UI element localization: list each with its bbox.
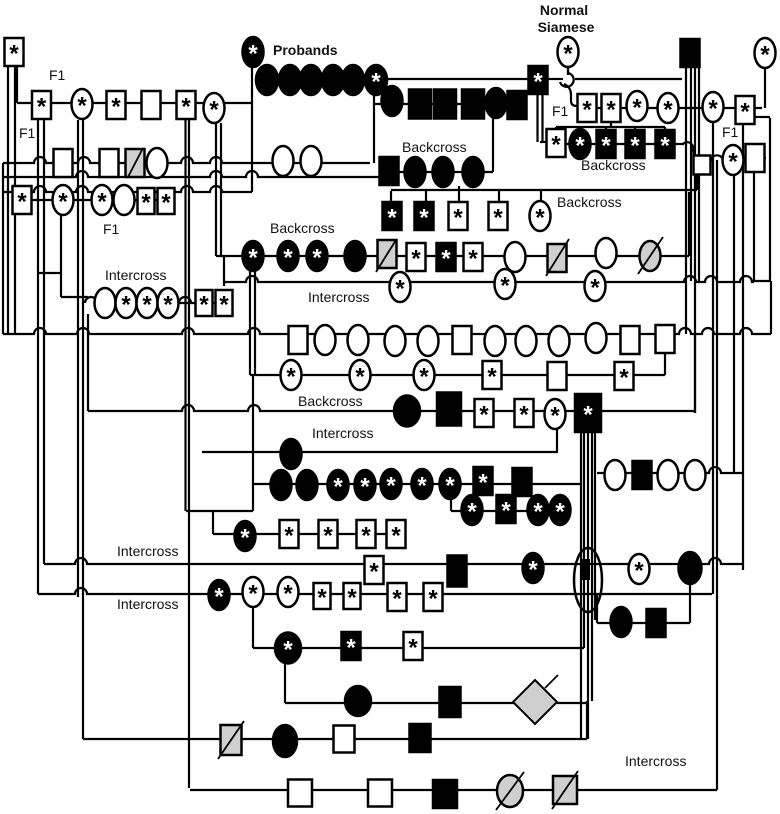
affected male row19 c: [433, 780, 457, 808]
female row3 c: [301, 146, 322, 176]
male* row15 g: [424, 583, 443, 613]
svg-text:*: *: [519, 402, 529, 429]
wire hook over bus right of backcross row: [683, 142, 694, 156]
affected male row9 b: [437, 393, 461, 426]
svg-text:Intercross: Intercross: [105, 267, 166, 283]
svg-text:*: *: [214, 584, 224, 611]
female row3 a: [147, 148, 168, 178]
svg-text:*: *: [219, 292, 229, 319]
male* row8 d: [483, 361, 502, 391]
svg-text:*: *: [478, 470, 488, 497]
wire bus big square a: [580, 432, 582, 739]
female row7 g: [485, 326, 506, 356]
svg-text:*: *: [9, 41, 19, 68]
wire drop F1 to sibs: [610, 119, 612, 127]
svg-text:*: *: [583, 402, 593, 429]
wire proband descent: [251, 67, 253, 192]
svg-text:*: *: [493, 205, 503, 232]
wire row3-right sibs line: [556, 126, 665, 128]
svg-text:*: *: [240, 525, 250, 552]
svg-text:*: *: [286, 364, 296, 391]
svg-text:*: *: [283, 245, 293, 272]
svg-text:*: *: [392, 586, 402, 613]
svg-text:F1: F1: [103, 221, 120, 237]
svg-text:*: *: [419, 205, 429, 232]
svg-text:Backcross: Backcross: [581, 157, 646, 173]
wire drop ellipse*555 to row10: [556, 429, 558, 452]
svg-text:F1: F1: [19, 125, 36, 141]
wire long left bus vertical: [188, 119, 190, 788]
affected female* row16 a: [275, 633, 301, 664]
svg-text:Backcross: Backcross: [402, 139, 467, 155]
svg-text:*: *: [248, 581, 258, 608]
wire drop row11 to row12: [450, 497, 452, 511]
wire row3-left mating line: [3, 157, 370, 163]
affected male* backcross child a: [383, 202, 402, 232]
wire vertical from ellipse*733: [733, 174, 735, 473]
affected female row10: [281, 439, 302, 469]
male* row4 c: [158, 188, 175, 217]
female* row15 c: [278, 577, 299, 608]
affected female* row5 b: [278, 241, 299, 272]
svg-text:Intercross: Intercross: [312, 425, 373, 441]
affected female* row11 g: [440, 469, 461, 500]
wire left bus vertical b: [184, 119, 186, 511]
female* row6 d: [158, 288, 179, 319]
svg-text:Intercross: Intercross: [117, 543, 178, 559]
wire row5 mating line: [216, 255, 689, 257]
wire row2-right F1 mating line: [580, 107, 762, 109]
female row11r a: [605, 460, 626, 490]
wire bus big square e: [594, 432, 596, 620]
affected male row18 b: [410, 724, 431, 752]
svg-text:Normal: Normal: [540, 2, 588, 18]
wire row6 intercross mating line: [95, 302, 224, 304]
wire drop row5 to row5b: [223, 256, 225, 286]
wire link to square556: [540, 141, 548, 143]
affected female* row12 d: [550, 495, 571, 526]
affected male* row16 b: [342, 632, 361, 662]
wire vertical from square* row2-left b: [43, 119, 45, 564]
wire bus dark square 690 a: [685, 68, 687, 334]
slash on grey male row5 i: [546, 239, 569, 276]
wire sib drop b: [579, 127, 581, 130]
female* row5b b: [495, 269, 516, 300]
normal siamese female*: [558, 37, 579, 68]
wire drop ellipse253 row15 to row16: [252, 607, 254, 648]
svg-text:*: *: [386, 473, 396, 500]
wire intercross connector b: [61, 296, 88, 298]
affected male* row11 h: [474, 467, 493, 497]
female* row8 b: [350, 360, 371, 391]
wire riser row5 right end: [688, 192, 690, 256]
wire sib drop 459: [458, 186, 460, 203]
wire row4-left mating line: [14, 199, 174, 201]
male* backcross child d: [489, 202, 508, 232]
affected female* row15 a: [209, 580, 230, 611]
svg-text:*: *: [428, 586, 438, 613]
female* row5b a: [390, 272, 411, 303]
wire drop square538 b: [541, 94, 543, 142]
wire drop from proband-row ellipse* to row3: [373, 95, 375, 163]
wire row1 line right of siamese: [575, 78, 682, 80]
svg-text:*: *: [283, 581, 293, 608]
deceased female row5 k (grey): [640, 241, 661, 271]
svg-text:*: *: [17, 189, 27, 216]
wire bus dark square 690 c: [694, 68, 696, 413]
affected female* row12 a: [462, 495, 483, 526]
female* row2 b: [204, 93, 225, 124]
svg-text:*: *: [740, 99, 750, 126]
wire row2-left mating line: [17, 102, 252, 104]
affected female row9 a: [394, 396, 420, 427]
male* row6 e: [196, 290, 213, 319]
wire right edge vertical: [770, 281, 772, 334]
svg-text:*: *: [323, 523, 333, 550]
svg-text:Probands: Probands: [273, 42, 338, 58]
proband row affected female 3: [300, 65, 322, 95]
svg-text:Intercross: Intercross: [308, 289, 369, 305]
svg-text:*: *: [391, 523, 401, 550]
slash on grey male row3: [128, 148, 143, 177]
svg-text:*: *: [347, 585, 357, 612]
svg-text:*: *: [663, 97, 673, 124]
male row3 b: [100, 149, 119, 177]
wire drop square755 to row5b: [753, 172, 755, 281]
wire riser from dark ellipse (493,103): [492, 118, 494, 172]
wire row11-right mating line: [597, 467, 743, 473]
svg-text:*: *: [500, 273, 510, 300]
svg-text:*: *: [601, 133, 611, 160]
node large oval across bus: [574, 548, 602, 612]
svg-text:*: *: [346, 635, 356, 662]
female* (733,160): [723, 145, 744, 176]
wire sib drop 541: [540, 191, 542, 203]
wire line y192: [4, 186, 252, 192]
female row7 i: [549, 326, 570, 356]
svg-text:*: *: [487, 364, 497, 391]
wire left drop A from top-left square: [7, 66, 9, 334]
male* row9 d: [515, 399, 534, 429]
wire drop dark ellipse 288 to row17: [284, 662, 286, 703]
proband row affected female 5: [342, 65, 364, 95]
male row7 l: [656, 325, 675, 353]
female* row9 e: [545, 399, 566, 430]
wire vertical from ellipse* row2-left b: [82, 120, 84, 739]
F1 male* right a: [578, 94, 597, 124]
male* row13 e: [387, 520, 406, 550]
affected female* row14 c: [523, 553, 544, 584]
wire row3-right backcross mating line: [548, 143, 684, 145]
male row7 k: [621, 326, 640, 354]
svg-text:*: *: [533, 69, 543, 96]
female row11r d: [685, 460, 706, 490]
affected female row17 a: [345, 686, 371, 716]
female row11r c: [658, 460, 679, 490]
svg-text:F1: F1: [722, 124, 739, 140]
svg-text:*: *: [634, 558, 644, 585]
wire intercross connector a: [38, 272, 61, 274]
wire vertical mid-right: [742, 124, 744, 570]
wire row1 line square to siamese: [548, 78, 563, 80]
wire row7 long mating line: [3, 328, 771, 334]
male* row13 d: [357, 520, 376, 550]
wire vertical from square* row2-left: [37, 119, 39, 594]
wire vertical from ellipse* row2-left: [77, 120, 79, 597]
wire sib drop a: [555, 127, 557, 130]
proband row affected female* last: [365, 65, 387, 96]
affected male* (538,80): [529, 66, 548, 96]
svg-text:*: *: [533, 499, 543, 526]
svg-text:*: *: [369, 559, 379, 586]
female* backcross child e: [530, 201, 551, 232]
svg-text:*: *: [619, 365, 629, 392]
male* row2: [32, 91, 51, 121]
wire riser row16b to dark ellipse 690: [689, 583, 691, 623]
wire hook square702 to ellipse733: [711, 155, 722, 162]
female row7 e: [418, 326, 439, 356]
female* row8 a: [281, 360, 302, 391]
svg-text:*: *: [606, 97, 616, 124]
svg-text:*: *: [453, 205, 463, 232]
wire corner top-left square to row2: [16, 66, 18, 103]
affected female row5 d: [345, 241, 366, 271]
wire row5b mating line: [224, 276, 754, 282]
affected male* backcross right c: [656, 130, 675, 160]
wire drop bus to row16b: [596, 594, 598, 623]
slash on grey male row5: [376, 240, 396, 272]
svg-text:*: *: [728, 149, 738, 176]
svg-text:*: *: [77, 93, 87, 120]
affected female row1b e: [486, 88, 507, 118]
wire row10 mating line: [202, 451, 558, 453]
affected female* backcross right: [570, 129, 591, 160]
svg-text:*: *: [181, 94, 191, 121]
svg-text:*: *: [630, 133, 640, 160]
female row3 b: [273, 146, 294, 176]
male row2: [142, 91, 161, 119]
slash on grey female row19: [496, 772, 524, 810]
wire double drop from dark ellipse row5 a: [249, 271, 251, 375]
affected female (443,172): [433, 157, 454, 187]
wire riser ellipse top-right: [764, 67, 766, 108]
wire double drop from dark ellipse row5 b: [254, 271, 256, 375]
male row7 f: [453, 326, 472, 354]
wire drop square538 a: [536, 94, 538, 142]
female row7 b: [315, 325, 336, 355]
wire riser square517 to row1: [528, 80, 530, 93]
male* row15 d: [314, 583, 331, 612]
F1 male* right b: [602, 94, 621, 124]
male row19 b: [368, 780, 392, 807]
affected male row1b c: [434, 90, 456, 119]
wire hook row6 left: [85, 297, 97, 303]
male* row6 f: [216, 290, 233, 319]
svg-text:*: *: [387, 205, 397, 232]
male row7 a: [289, 326, 308, 354]
male* backcross right open: [547, 129, 566, 159]
female* row6 b: [116, 288, 137, 319]
svg-text:*: *: [660, 133, 670, 160]
wire hook under normal siamese: [560, 68, 574, 87]
male row19 a: [288, 780, 312, 807]
wire row14 long mating line: [44, 558, 742, 564]
svg-text:Backcross: Backcross: [557, 194, 622, 210]
wire row18 mating line: [83, 738, 587, 740]
svg-text:*: *: [708, 96, 718, 123]
wire row12 mating line: [451, 510, 570, 512]
wire normal siamese drop: [567, 65, 569, 75]
male* row2 b: [107, 91, 126, 121]
slash on grey male row18: [218, 721, 244, 759]
male row8 e: [548, 362, 567, 390]
affected male* row5 f: [437, 243, 456, 273]
affected female row14 e: [679, 552, 702, 584]
affected female row11 b: [297, 470, 318, 500]
affected male* backcross child b: [415, 202, 434, 232]
wire square755 to edge: [762, 157, 766, 159]
svg-text:*: *: [248, 41, 258, 68]
deceased female row19 (grey): [497, 775, 523, 807]
F1 female* right c: [703, 92, 724, 123]
svg-text:*: *: [161, 190, 171, 217]
deceased male row18 (grey): [221, 725, 242, 755]
wire vertical from ellipse* (214,108) b: [220, 123, 222, 256]
affected female (473,172): [463, 157, 484, 187]
wire row1b mating line: [375, 103, 527, 105]
wire riser row8 to row7 square: [664, 348, 666, 375]
wire row5b to right edge: [754, 280, 771, 282]
svg-text:Siamese: Siamese: [538, 19, 595, 35]
male* row2 c: [177, 91, 196, 121]
male* row9 c: [475, 399, 494, 429]
female row7 j: [586, 323, 607, 353]
individual top-left male*: [5, 38, 24, 68]
wire riser square(702) to y190: [696, 174, 698, 190]
svg-text:*: *: [283, 637, 293, 664]
affected male row14 b: [448, 556, 467, 587]
proband female* (dark): [243, 37, 264, 68]
male* row13 c: [319, 520, 338, 550]
svg-text:*: *: [312, 245, 322, 272]
wire bus big square c: [587, 432, 589, 739]
wire line y177: [4, 171, 381, 177]
deceased male row5 i (grey): [548, 244, 567, 272]
svg-text:*: *: [411, 246, 421, 273]
affected female* row11 d: [355, 470, 376, 501]
node small dark mark inside oval: [581, 559, 590, 580]
female row6 a: [95, 288, 116, 318]
svg-text:*: *: [37, 94, 47, 121]
wire sib drop d: [634, 127, 636, 130]
male* row8 f: [615, 362, 634, 392]
wire row4-right sibship line: [391, 189, 697, 191]
svg-text:*: *: [248, 245, 258, 272]
proband row affected female 4: [322, 65, 344, 95]
affected female row18: [273, 725, 297, 757]
svg-text:Intercross: Intercross: [117, 596, 178, 612]
wire sib drop 426: [425, 191, 427, 203]
affected male (690,53): [681, 39, 700, 67]
wire row17 mating line: [285, 702, 587, 704]
wire drop from F1 ellipse63 to intercross: [60, 215, 62, 297]
affected female* row11 e: [381, 469, 402, 500]
svg-text:*: *: [441, 246, 451, 273]
wire row8 mating line: [250, 374, 665, 376]
svg-text:*: *: [371, 69, 381, 96]
wire row16 mating line: [253, 647, 584, 649]
male* row14 a: [365, 556, 384, 586]
wire sib drop c: [605, 127, 607, 130]
svg-text:*: *: [408, 635, 418, 662]
male* backcross child c: [449, 202, 468, 232]
affected female row16b a: [611, 607, 632, 637]
svg-text:*: *: [582, 97, 592, 124]
affected male (389,171): [380, 157, 399, 185]
male* row13 b: [280, 520, 299, 550]
affected male* row12 b: [497, 495, 516, 525]
svg-text:Intercross: Intercross: [625, 753, 686, 769]
svg-text:*: *: [360, 474, 370, 501]
proband row affected female 2: [279, 65, 301, 95]
svg-text:*: *: [355, 364, 365, 391]
female row4: [114, 185, 135, 215]
affected female* row5 a: [243, 241, 264, 272]
svg-text:*: *: [445, 473, 455, 500]
svg-text:*: *: [141, 190, 151, 217]
svg-text:*: *: [555, 499, 565, 526]
wire row9 right link: [599, 410, 695, 412]
wire line ellipse733 to square755: [742, 158, 748, 160]
male* row4 b: [138, 188, 155, 217]
male (755,158): [746, 144, 765, 172]
svg-text:*: *: [467, 499, 477, 526]
female* row15 b: [243, 577, 264, 608]
svg-text:*: *: [121, 292, 131, 319]
wire row9 mating line: [88, 405, 599, 411]
affected female row11 a: [271, 470, 292, 500]
affected female row1b a: [382, 86, 403, 116]
deceased male row3 (grey): [126, 149, 145, 177]
svg-text:F1: F1: [552, 103, 569, 119]
affected female* row11 f: [412, 469, 433, 500]
wire long vertical right: [716, 160, 718, 790]
female* top right: [755, 38, 776, 69]
wire drop row8 to row11: [252, 375, 254, 511]
F1 male* right d: [736, 96, 755, 126]
affected male row1b f: [508, 91, 527, 119]
male row18: [334, 726, 355, 753]
wire hook row6 mid: [179, 297, 191, 303]
deceased male row5 (grey): [378, 240, 397, 268]
svg-text:*: *: [590, 275, 600, 302]
wire riser row9 to row7: [694, 334, 696, 413]
wire row15 mating line: [38, 588, 712, 594]
wire left drop B from top-left square: [14, 66, 16, 334]
wire sib drop e: [664, 127, 666, 130]
wire row13 mating line: [213, 533, 396, 535]
svg-text:*: *: [563, 41, 573, 68]
female row5 j: [596, 238, 617, 268]
wire sib drop 391: [390, 191, 392, 203]
svg-text:*: *: [361, 523, 371, 550]
svg-text:Backcross: Backcross: [298, 393, 363, 409]
slash on grey male row19: [552, 771, 578, 809]
affected female* row11 c: [328, 470, 349, 501]
affected male row11r b: [633, 461, 652, 489]
svg-text:*: *: [501, 498, 511, 525]
affected female* row13 a: [235, 521, 256, 552]
